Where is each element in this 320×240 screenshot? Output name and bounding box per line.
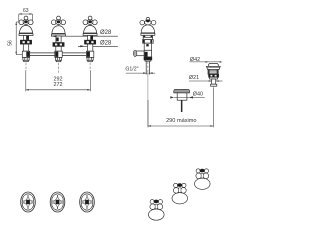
dimension 292 / 272 (hole spacing) xyxy=(26,70,91,91)
nut xyxy=(144,57,152,60)
leader line for lower diameter label (behind parts) xyxy=(78,45,118,47)
lower body xyxy=(144,50,151,57)
backnut dark band xyxy=(209,74,219,77)
svg-text:63: 63 xyxy=(23,8,29,14)
backnut light row xyxy=(210,77,218,79)
dimension 56 (height) xyxy=(15,22,22,55)
left valve xyxy=(19,16,33,71)
dome cap xyxy=(209,63,219,66)
right valve xyxy=(83,16,97,71)
svg-text:G1/2": G1/2" xyxy=(125,66,138,72)
handle top view 1 xyxy=(21,192,36,212)
manifold bar pipe xyxy=(22,52,94,54)
side port xyxy=(136,51,145,56)
collar band A xyxy=(143,35,152,39)
arrowhead of upper diameter leader xyxy=(51,35,57,37)
svg-text:Ø28: Ø28 xyxy=(100,41,112,47)
tailpipe xyxy=(145,61,147,74)
threaded body xyxy=(208,69,218,74)
handle 3/4 view 1 xyxy=(149,200,165,221)
svg-text:290 máximo: 290 máximo xyxy=(166,118,196,124)
arrowhead of lower diameter leader xyxy=(80,45,85,47)
svg-text:56: 56 xyxy=(7,40,13,46)
collar band B xyxy=(143,40,154,44)
tail tube xyxy=(212,79,216,84)
middle tee dark insert xyxy=(55,52,58,57)
body xyxy=(144,43,151,50)
svg-text:272: 272 xyxy=(54,82,63,88)
left tee dark insert xyxy=(26,52,29,57)
dimension 63 (handle width) xyxy=(19,13,33,21)
leader line for upper diameter label (behind parts) xyxy=(51,35,118,37)
svg-text:Ø21: Ø21 xyxy=(189,75,199,81)
cross handle side xyxy=(140,20,145,25)
bell xyxy=(141,25,155,33)
middle valve (spout) xyxy=(51,16,65,73)
svg-text:Ø28: Ø28 xyxy=(100,30,112,36)
tail end flare xyxy=(211,84,217,86)
handle 3/4 view 3 xyxy=(195,169,211,190)
handle top view 3 xyxy=(80,192,95,212)
handle top view 2 xyxy=(50,192,65,212)
handle 3/4 view 2 xyxy=(172,183,188,204)
svg-text:Ø40: Ø40 xyxy=(193,92,203,98)
flange xyxy=(207,66,221,69)
right tee dark insert xyxy=(87,52,90,57)
